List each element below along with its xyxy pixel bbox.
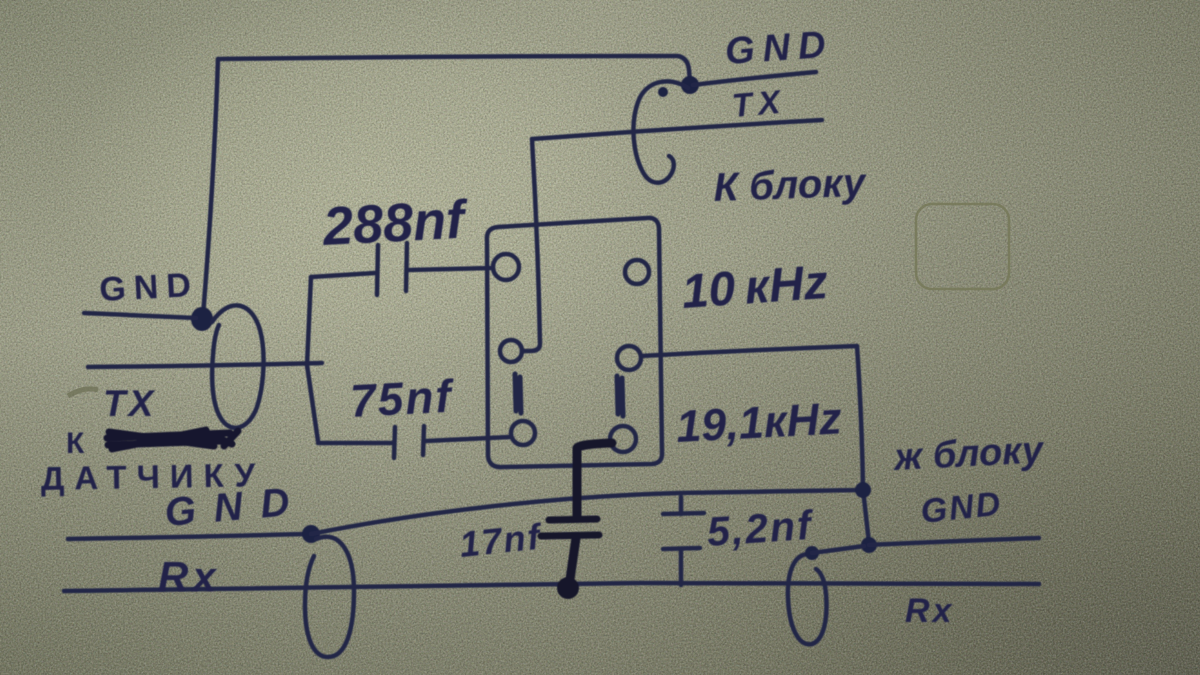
node: thick dot on RX line under C3 bbox=[557, 577, 579, 599]
wire: left vertical drop of top GND bus bbox=[203, 59, 218, 316]
svg-text:GND: GND bbox=[98, 266, 199, 309]
node: junction dot right GND bottom bbox=[861, 537, 877, 553]
svg-text:TX: TX bbox=[103, 383, 156, 424]
node: dot at top of bottom-right loop bbox=[805, 546, 819, 560]
capacitor C3 17nf: plates (thick) bbox=[541, 519, 599, 536]
wire: GND stub to the right (top) bbox=[693, 72, 816, 85]
cable loop marker: bottom-left twisted pair bbox=[305, 537, 354, 657]
pin 5: bottom-left pin of U1 bbox=[511, 421, 535, 445]
svg-text:TX: TX bbox=[730, 82, 787, 124]
svg-text:5,2nf: 5,2nf bbox=[705, 502, 816, 555]
contact hatch: right contact mark inside U1 bbox=[617, 376, 623, 416]
pin 3: middle-left pin of U1 bbox=[500, 340, 522, 362]
capacitor C1 288nf: right wire to pin 1 bbox=[409, 268, 492, 270]
node: junction dot right GND corner bbox=[855, 482, 871, 498]
svg-text:ж блоку: ж блоку bbox=[891, 429, 1046, 479]
svg-text:Rx: Rx bbox=[905, 592, 954, 630]
capacitor C4 5.2nf: upper stem bbox=[679, 497, 684, 514]
pin 1: top-left pin of U1 bbox=[493, 254, 519, 280]
capacitor C2 75nf: right wire to pin 5 bbox=[426, 437, 510, 441]
wire: TX line (left) bbox=[88, 363, 322, 367]
svg-text:10 кHz: 10 кHz bbox=[680, 256, 829, 319]
svg-text:75nf: 75nf bbox=[349, 370, 457, 427]
wire: right vertical bbox=[857, 346, 869, 543]
svg-text:К блоку: К блоку bbox=[713, 161, 868, 210]
svg-text:Rx: Rx bbox=[158, 553, 220, 600]
pencil mark: faint rounded rectangle top right bbox=[916, 204, 1009, 289]
capacitor C3 17nf: lower lead bbox=[569, 538, 576, 586]
wire: vertical from TX top down into block to middle-left pin bbox=[522, 139, 540, 351]
pin 4: middle-right pin of U1 bbox=[617, 346, 641, 370]
wire: middle-right pin to right vertical bbox=[641, 346, 857, 356]
wire: GND line right bbox=[869, 538, 1039, 545]
capacitor C1 288nf: left wire bbox=[311, 273, 375, 277]
wire: TX line (top) bbox=[532, 120, 822, 139]
svg-text:GND: GND bbox=[724, 24, 835, 73]
node: junction dot GND left-bottom bbox=[302, 525, 320, 543]
capacitor C3 17nf: thick elbow from pin 6 bbox=[577, 443, 612, 517]
capacitor C1 288nf: plates bbox=[377, 243, 407, 295]
wire: RX line full width bbox=[64, 583, 1039, 591]
wire: GND line left bbox=[68, 534, 306, 539]
pencil mark: faint smudge left bbox=[68, 389, 98, 396]
capacitor C4 5.2nf: lower stem bbox=[679, 549, 684, 585]
node: small dot where loop crosses top GND bbox=[658, 87, 668, 97]
cable loop marker: bottom-right twisted pair bbox=[788, 554, 827, 644]
scribble: crossed-out word bbox=[107, 430, 238, 449]
wire: left vertical bus joining C1, TX-left and C2 bbox=[307, 277, 318, 441]
pin 2: top-right pin of U1 bbox=[625, 260, 649, 284]
wire: rising GND line to the right vertical bbox=[311, 490, 861, 534]
capacitor C4 5.2nf: plates bbox=[663, 513, 704, 549]
svg-text:17nf: 17nf bbox=[458, 516, 545, 565]
svg-text:К: К bbox=[66, 427, 85, 460]
wire: short link from loop dot to right vertical bbox=[812, 546, 864, 553]
svg-text:19,1кHz: 19,1кHz bbox=[675, 392, 843, 452]
pin 6: bottom-right pin of U1 bbox=[610, 426, 636, 452]
wire: top GND bus from left vertical to corner bbox=[218, 56, 690, 82]
capacitor C2 75nf: plates bbox=[394, 426, 424, 458]
svg-text:288nf: 288nf bbox=[320, 189, 470, 257]
block U1: filter block outline bbox=[487, 218, 662, 467]
node: junction dot left GND bbox=[191, 307, 213, 331]
cable loop marker: left twisted pair bbox=[212, 305, 264, 427]
contact hatch: left contact mark inside U1 bbox=[515, 374, 521, 413]
wire: GND left stub bbox=[84, 313, 196, 318]
node: junction dot top-right GND bbox=[681, 76, 699, 94]
capacitor C2 75nf: left wire bbox=[318, 441, 392, 446]
cable loop marker: top twisted pair bbox=[633, 81, 688, 182]
